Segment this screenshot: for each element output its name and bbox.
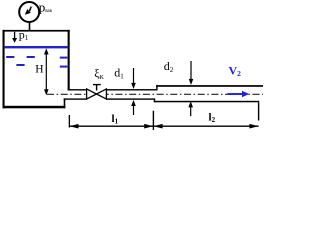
l2 dimension line: [153, 125, 258, 127]
svg-text:l1: l1: [112, 113, 119, 126]
svg-text:d1: d1: [114, 66, 124, 81]
d2 down arrow: [189, 61, 194, 85]
l1 dimension line: [69, 125, 153, 127]
small pipe bottom wall: [64, 98, 87, 99]
water dash row1 a: [6, 56, 14, 58]
pipe centerline (dash-dot): [47, 93, 263, 95]
l1/l2 divider extension line: [153, 111, 154, 130]
l1 right arrowhead: [144, 124, 153, 129]
l2 left arrowhead: [153, 124, 162, 129]
l2 right extension line: [258, 103, 259, 121]
l1 left arrowhead: [69, 124, 78, 129]
water surface line: [5, 46, 68, 48]
svg-text:ξК: ξК: [94, 66, 104, 81]
svg-text:l2: l2: [209, 111, 216, 124]
step up of pipe (expansion): [156, 85, 157, 91]
large pipe bottom wall: [154, 101, 259, 103]
l2 right arrowhead: [249, 124, 258, 129]
large pipe top wall: [156, 85, 263, 87]
svg-text:H: H: [35, 64, 43, 76]
water dash row1 c: [60, 57, 68, 59]
l1 left extension line: [69, 115, 70, 128]
valve T-handle: [93, 85, 101, 91]
d1 up arrow: [131, 100, 136, 115]
water dash row2 a: [16, 64, 24, 66]
small pipe top wall: [68, 89, 87, 90]
tank bottom wall: [3, 106, 66, 109]
d1 down arrow: [131, 68, 136, 89]
valve body (bowtie): [87, 89, 107, 99]
tank lower-right wall: [64, 98, 66, 108]
water dash row2 b: [60, 66, 68, 68]
step down of pipe bottom: [154, 98, 155, 102]
gauge stem: [29, 22, 31, 30]
svg-text:p1: p1: [19, 27, 29, 42]
gauge needle arrow: [25, 7, 31, 15]
tank right wall: [68, 30, 70, 91]
svg-text:V2: V2: [229, 64, 242, 79]
vacuum gauge circle: [19, 2, 39, 22]
svg-text:d2: d2: [164, 59, 174, 74]
arrow p1 (down arrow at surface): [12, 32, 17, 43]
flow arrow V2 (blue): [228, 91, 250, 98]
svg-text:pвак: pвак: [39, 0, 53, 14]
water dash row1 b: [27, 56, 35, 58]
d2 up arrow: [188, 101, 193, 116]
tank left wall: [3, 30, 5, 108]
H dimension arrow (double headed vertical): [44, 48, 49, 95]
tank top wall: [3, 30, 70, 32]
